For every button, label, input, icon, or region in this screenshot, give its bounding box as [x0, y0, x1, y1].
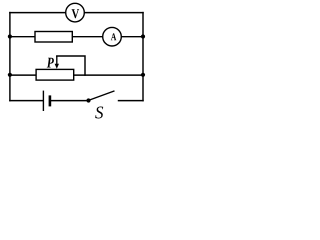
wire rheostat branch left — [10, 74, 36, 76]
battery long plate — [42, 91, 44, 111]
voltmeter V — [66, 3, 85, 22]
switch pivot dot — [86, 98, 90, 102]
rheostat wiper arrow — [55, 56, 59, 69]
label S — [95, 107, 103, 119]
node dot left bus / resistor branch — [8, 34, 12, 38]
label P — [47, 58, 54, 68]
battery short plate — [49, 95, 52, 106]
wire battery to switch — [51, 100, 89, 102]
wire resistor to ammeter — [72, 36, 102, 38]
node dot right bus / rheostat branch — [141, 73, 145, 77]
wire resistor branch left — [10, 36, 35, 38]
node dot right bus / ammeter branch — [141, 34, 145, 38]
wire wiper loop — [57, 56, 85, 75]
ammeter A — [103, 27, 122, 46]
wire left bus — [9, 13, 11, 101]
wire ammeter to right bus — [122, 36, 143, 38]
resistor R — [35, 32, 72, 43]
rheostat (potentiometer) box — [36, 69, 74, 80]
wire top left segment — [10, 12, 65, 14]
wire right bus — [142, 13, 144, 101]
wire bottom left (bus to battery) — [10, 100, 43, 102]
wire top right segment — [85, 12, 143, 14]
switch lever — [89, 91, 115, 101]
node dot left bus / rheostat branch — [8, 73, 12, 77]
wire switch to right bus — [119, 100, 144, 102]
wire rheostat to right bus — [74, 74, 143, 76]
